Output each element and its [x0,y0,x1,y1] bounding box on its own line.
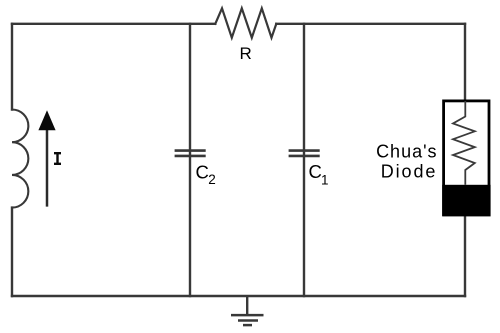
svg-text:Diode: Diode [381,161,438,181]
wire left bottom segment [11,208,13,296]
wire right bottom segment [464,215,466,296]
current arrow I head [38,110,55,130]
svg-text:C: C [196,161,209,182]
capacitor C2 lead wire [189,24,191,296]
Chua's diode box U1 [444,101,489,215]
wire top-right segment [276,23,465,25]
svg-text:R: R [240,44,252,63]
svg-text:1: 1 [321,172,329,187]
label I [54,152,61,165]
wire bottom [12,295,465,297]
capacitor C1 lead wire [303,24,305,296]
capacitor C1 plates [289,151,320,156]
current arrow I line [46,130,49,207]
resistor R [215,8,276,37]
capacitor C2 plates [175,151,206,156]
wire left top segment [11,24,13,110]
Chua's diode internal resistor zigzag [453,101,475,185]
Chua's diode internal black region [442,185,490,217]
inductor L1 coil [12,110,28,208]
svg-text:Chua's: Chua's [376,141,437,161]
ground symbol [231,296,264,325]
wire right top segment [464,24,466,101]
svg-text:C: C [309,161,322,182]
wire top-left segment [12,23,215,25]
svg-text:2: 2 [208,172,216,187]
